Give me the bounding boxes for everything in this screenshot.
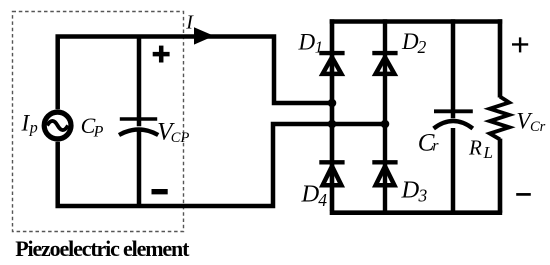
svg-text:2: 2 [418, 37, 427, 57]
svg-text:p: p [29, 119, 38, 136]
svg-text:D: D [301, 181, 320, 208]
svg-text:Cr: Cr [530, 119, 546, 135]
svg-text:D: D [401, 176, 420, 203]
svg-text:I: I [185, 11, 194, 33]
svg-text:CP: CP [171, 130, 190, 146]
svg-text:1: 1 [315, 37, 324, 56]
svg-text:R: R [468, 135, 482, 159]
svg-text:r: r [432, 137, 439, 154]
svg-text:3: 3 [418, 186, 428, 206]
svg-text:P: P [93, 124, 104, 141]
svg-text:4: 4 [318, 190, 327, 210]
svg-text:Piezoelectric element: Piezoelectric element [15, 236, 190, 261]
svg-text:D: D [298, 29, 316, 54]
svg-text:D: D [401, 29, 419, 54]
svg-text:L: L [483, 143, 493, 162]
